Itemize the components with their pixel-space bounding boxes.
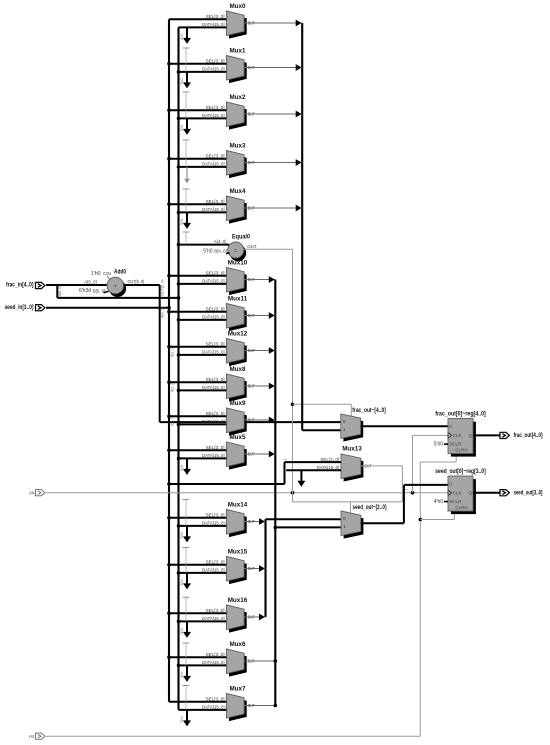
svg-text:Q: Q bbox=[468, 491, 472, 496]
wire V1 Add0 OUT bus down to frac_out mux input 0 bbox=[159, 285, 161, 422]
svg-text:SCLR: SCLR bbox=[449, 499, 462, 504]
svg-text:A[2..0]: A[2..0] bbox=[170, 382, 174, 392]
input pin seed_in[3..0] bbox=[36, 305, 45, 311]
svg-text:5'h0: 5'h0 bbox=[180, 78, 184, 84]
net tie marker bbox=[183, 685, 190, 687]
svg-text:seed_in[3..0]: seed_in[3..0] bbox=[5, 304, 34, 311]
dangling bus arrow below Mux4 DATA bbox=[186, 212, 188, 224]
wire Mux4 SEL bbox=[169, 203, 226, 205]
wire V2 seed bus vertical (SEL feed) bbox=[168, 19, 170, 702]
mux Mux3 bbox=[229, 154, 247, 179]
wire Mux3 DATA bbox=[179, 166, 227, 168]
wire R3 branch to seed_out mux input 1 bbox=[274, 526, 278, 530]
svg-text:OUT: OUT bbox=[247, 244, 257, 249]
svg-text:A[4..0]: A[4..0] bbox=[214, 239, 227, 244]
svg-text:A[2..0]: A[2..0] bbox=[170, 416, 174, 426]
input pin rst bbox=[36, 733, 45, 739]
wire Mux3 OUT bbox=[244, 162, 302, 164]
wire Mux2 SEL bbox=[169, 109, 226, 111]
mux Mux5 bbox=[229, 445, 247, 470]
wire Mux11 OUT bbox=[244, 315, 275, 317]
svg-text:Mux15: Mux15 bbox=[228, 548, 248, 555]
wire Mux3 SEL bbox=[169, 158, 226, 160]
svg-text:Mux14: Mux14 bbox=[228, 501, 248, 508]
mux Mux6 bbox=[229, 652, 247, 677]
wire Add0 OUT bbox=[124, 284, 160, 286]
svg-text:CLRN: CLRN bbox=[455, 505, 467, 510]
svg-text:Mux7: Mux7 bbox=[229, 685, 246, 692]
svg-text:CLK: CLK bbox=[453, 433, 462, 438]
svg-text:5'h0: 5'h0 bbox=[203, 248, 213, 254]
wire Mux2 DATA bbox=[179, 117, 227, 119]
wire bus R4 collecting Mux14,15,16 outputs to seed mux input 0 bbox=[264, 519, 266, 617]
svg-text:Mux0: Mux0 bbox=[229, 3, 246, 10]
svg-text:CIN: CIN bbox=[103, 271, 111, 276]
mux Mux11 bbox=[229, 307, 247, 332]
net tie marker bbox=[183, 91, 190, 93]
junction dots on V3 bbox=[177, 70, 181, 74]
svg-text:5'h0: 5'h0 bbox=[180, 579, 184, 585]
svg-text:4'h0: 4'h0 bbox=[434, 499, 444, 505]
wire frac_in to Add0 A bbox=[46, 284, 108, 286]
mux Mux16 bbox=[229, 608, 247, 633]
mux Mux15 bbox=[229, 560, 247, 585]
mux Mux2 bbox=[229, 105, 247, 130]
wire Mux11 SEL bbox=[169, 311, 226, 313]
mux Mux0 bbox=[229, 14, 247, 39]
dangling bus arrow below Mux1 DATA bbox=[186, 72, 188, 84]
svg-text:seed_out[3..0]: seed_out[3..0] bbox=[514, 490, 543, 497]
wire Mux0 SEL bbox=[169, 18, 226, 20]
wire Mux5 DATA bbox=[179, 457, 227, 459]
wire Mux0 DATA bbox=[179, 26, 227, 28]
wire Mux12 OUT bbox=[244, 350, 275, 352]
wire Mux12 DATA bbox=[179, 354, 227, 356]
wire R2 to seed_out mux select bbox=[293, 501, 403, 503]
wire frac_in branch down to V3 bbox=[56, 285, 58, 298]
svg-text:D: D bbox=[449, 424, 452, 429]
svg-text:Mux1: Mux1 bbox=[229, 47, 246, 54]
wire Mux5 OUT bbox=[244, 453, 275, 455]
svg-text:Mux11: Mux11 bbox=[228, 295, 248, 302]
dangling bus arrow below Mux6 DATA bbox=[186, 665, 188, 677]
wire Mux10 SEL bbox=[169, 275, 226, 277]
svg-text:rst: rst bbox=[29, 734, 35, 740]
wire R2 branch to frac_out mux select bbox=[293, 403, 352, 405]
junction dots on V2 bbox=[167, 62, 171, 66]
output pin seed_out[3..0] bbox=[500, 490, 509, 496]
svg-text:A[4..0]: A[4..0] bbox=[161, 307, 165, 318]
wire Mux1 DATA bbox=[179, 71, 227, 73]
svg-text:CLK: CLK bbox=[453, 491, 462, 496]
net tie marker bbox=[183, 188, 190, 190]
dangling bus arrow below Mux5 DATA bbox=[186, 458, 188, 470]
net tie marker bbox=[183, 499, 190, 501]
svg-text:CLRN: CLRN bbox=[455, 448, 467, 453]
wire Mux15 OUT bbox=[244, 568, 265, 570]
svg-text:OUT[5..0]: OUT[5..0] bbox=[161, 280, 165, 296]
svg-text:Mux2: Mux2 bbox=[229, 94, 246, 101]
dangling bus arrow below Mux13 DATA bbox=[300, 470, 302, 482]
wire Mux13 SEL from V2 via corner bbox=[167, 482, 171, 486]
svg-text:Q: Q bbox=[468, 433, 472, 438]
svg-text:Mux6: Mux6 bbox=[229, 641, 246, 648]
mux Mux9 bbox=[229, 411, 247, 436]
wire Mux5 SEL bbox=[169, 449, 226, 451]
mux Mux7 bbox=[229, 697, 247, 722]
svg-text:B[4..0]: B[4..0] bbox=[214, 248, 227, 253]
wire Mux4 OUT bbox=[244, 207, 302, 209]
svg-text:SCLR: SCLR bbox=[449, 442, 462, 447]
svg-text:Equal0: Equal0 bbox=[232, 233, 250, 240]
wire Mux15 DATA bbox=[179, 572, 227, 574]
svg-text:5'h0: 5'h0 bbox=[180, 671, 184, 677]
dangling bus arrow below Mux7 DATA bbox=[186, 710, 188, 722]
wire Mux9 DATA bbox=[179, 423, 227, 425]
dangling bus arrow below Mux0 DATA bbox=[186, 27, 188, 39]
wire Mux0 OUT bbox=[244, 22, 302, 24]
wire Mux16 DATA bbox=[179, 620, 227, 622]
svg-text:Mux9: Mux9 bbox=[229, 400, 246, 407]
net tie marker bbox=[183, 231, 190, 233]
wire Mux1 OUT bbox=[244, 67, 302, 69]
wire rst net bbox=[46, 735, 420, 737]
wire seed_in to V2 bbox=[46, 307, 169, 309]
mux frac_out~[4..0] bbox=[343, 417, 363, 442]
svg-text:seed_out[0]~reg[3..0]: seed_out[0]~reg[3..0] bbox=[435, 468, 486, 475]
mux seed_out~[2..0] bbox=[344, 514, 364, 539]
wire Mux10 DATA bbox=[179, 283, 227, 285]
wire Mux8 DATA bbox=[179, 389, 227, 391]
svg-text:Mux12: Mux12 bbox=[228, 330, 248, 337]
wire V3 frac bus vertical (DATA feed) bbox=[177, 27, 179, 710]
svg-text:2: 2 bbox=[284, 458, 288, 460]
svg-text:A[5..0]: A[5..0] bbox=[84, 280, 97, 285]
svg-text:Mux8: Mux8 bbox=[229, 366, 246, 373]
wire Mux16 SEL bbox=[169, 612, 226, 614]
dangling bus arrow below Mux2 DATA bbox=[186, 118, 188, 130]
mux Mux12 bbox=[229, 342, 247, 367]
mux Mux13 bbox=[344, 457, 364, 482]
net tie marker bbox=[183, 139, 190, 141]
wire Mux16 OUT bbox=[244, 616, 265, 618]
svg-text:=: = bbox=[234, 248, 238, 254]
svg-text:seed_out~[2..0]: seed_out~[2..0] bbox=[353, 504, 387, 511]
mux Mux4 bbox=[229, 199, 247, 224]
svg-text:D: D bbox=[449, 482, 452, 487]
comparator Equal0 bbox=[230, 245, 247, 262]
adder Add0 bbox=[109, 280, 126, 297]
svg-text:Mux10: Mux10 bbox=[228, 259, 248, 266]
wire Mux9 SEL bbox=[169, 415, 226, 417]
svg-text:6'h3d: 6'h3d bbox=[79, 288, 91, 294]
svg-text:5'h0: 5'h0 bbox=[180, 33, 184, 39]
wire Equal0 OUT to R2 bbox=[244, 248, 293, 250]
svg-text:5'h0: 5'h0 bbox=[180, 124, 184, 130]
svg-text:5'h0: 5'h0 bbox=[180, 627, 184, 633]
wire Mux7 DATA bbox=[179, 709, 227, 711]
wire frac register Q to output pin bbox=[473, 434, 500, 436]
wire Mux6 DATA bbox=[179, 664, 227, 666]
mux Mux8 bbox=[229, 377, 247, 402]
svg-text:Mux4: Mux4 bbox=[229, 188, 246, 195]
svg-text:1'h0: 1'h0 bbox=[91, 271, 101, 277]
wire Mux12 SEL bbox=[169, 346, 226, 348]
wire Mux8 OUT bbox=[244, 385, 275, 387]
wire Mux6 SEL bbox=[169, 656, 226, 658]
svg-text:Mux5: Mux5 bbox=[229, 434, 246, 441]
svg-text:frac_out[4..0]: frac_out[4..0] bbox=[514, 432, 543, 439]
svg-text:5'h0: 5'h0 bbox=[180, 716, 184, 722]
net tie marker bbox=[183, 642, 190, 644]
dangling bus arrow below Mux16 DATA bbox=[186, 621, 188, 633]
svg-text:5'h0: 5'h0 bbox=[180, 532, 184, 538]
svg-text:frac_out~[4..0]: frac_out~[4..0] bbox=[352, 407, 386, 414]
svg-text:5'h0: 5'h0 bbox=[180, 218, 184, 224]
svg-text:Mux13: Mux13 bbox=[342, 446, 362, 453]
wire Mux15 SEL bbox=[169, 564, 226, 566]
svg-text:1: 1 bbox=[405, 489, 409, 491]
wire bus R1 collecting Mux0-Mux4 outputs bbox=[301, 23, 303, 430]
grey dangling arrow below Mux3 DATA bbox=[186, 167, 188, 180]
input pin frac_in[4..0] bbox=[36, 282, 45, 288]
wire Mux1 SEL bbox=[169, 63, 226, 65]
output pin frac_out[4..0] bbox=[500, 432, 509, 438]
wire frac_out mux OUT to frac register D bbox=[361, 425, 448, 427]
wire Mux4 DATA bbox=[179, 211, 227, 213]
wire Mux14 SEL bbox=[169, 517, 226, 519]
wire Equal0 A input bbox=[179, 244, 230, 246]
wire Mux8 SEL bbox=[169, 381, 226, 383]
svg-text:Mux16: Mux16 bbox=[228, 597, 248, 604]
svg-text:5'h0: 5'h0 bbox=[434, 441, 444, 447]
svg-text:5'h0: 5'h0 bbox=[180, 464, 184, 470]
wire Mux6 OUT bbox=[244, 660, 275, 662]
wire Mux13 OUT to seed mux select rail bbox=[361, 465, 403, 467]
wire Mux11 DATA bbox=[179, 319, 227, 321]
svg-text:A[5..0]: A[5..0] bbox=[58, 286, 62, 297]
wire bus R3 collecting Mux10,11,12,8,9,5 and Mux6,7 outputs bbox=[274, 280, 276, 706]
register seed_out[0]~reg[3..0] bbox=[451, 479, 476, 514]
svg-text:+: + bbox=[113, 283, 117, 290]
wire Mux14 OUT bbox=[244, 521, 265, 523]
mux Mux14 bbox=[229, 513, 247, 538]
dangling bus arrow below Mux15 DATA bbox=[186, 573, 188, 585]
net tie marker bbox=[183, 47, 190, 49]
mux Mux1 bbox=[229, 59, 247, 84]
wire Mux13 DATA bbox=[286, 469, 341, 471]
svg-text:Add0: Add0 bbox=[114, 269, 126, 276]
input pin clk bbox=[36, 490, 45, 496]
wire Mux14 DATA bbox=[179, 525, 227, 527]
net tie marker bbox=[183, 596, 190, 598]
wire seed_out mux OUT to seed register D bbox=[361, 522, 404, 524]
svg-text:Mux3: Mux3 bbox=[229, 142, 246, 149]
register frac_out[0]~reg[4..0] bbox=[451, 422, 476, 457]
dangling bus arrow below Mux14 DATA bbox=[186, 526, 188, 538]
svg-text:A[2..0]: A[2..0] bbox=[170, 347, 174, 357]
svg-text:OUT[5..0]: OUT[5..0] bbox=[128, 279, 145, 284]
wire seed register Q to output pin bbox=[473, 492, 500, 494]
wire Mux9 OUT bbox=[244, 419, 275, 421]
svg-text:frac_in[4..0]: frac_in[4..0] bbox=[6, 282, 34, 289]
wire Mux7 OUT bbox=[244, 705, 275, 707]
net tie marker bbox=[183, 547, 190, 549]
svg-text:clk: clk bbox=[29, 490, 35, 496]
wire Mux7 SEL bbox=[169, 701, 226, 703]
svg-text:B[5..0]: B[5..0] bbox=[93, 288, 106, 293]
wire Mux10 OUT bbox=[244, 279, 275, 281]
wire clk net bbox=[46, 492, 448, 494]
mux Mux10 bbox=[229, 271, 247, 296]
wire Mux2 OUT bbox=[244, 113, 302, 115]
svg-text:frac_out[0]~reg[4..0]: frac_out[0]~reg[4..0] bbox=[435, 410, 486, 417]
